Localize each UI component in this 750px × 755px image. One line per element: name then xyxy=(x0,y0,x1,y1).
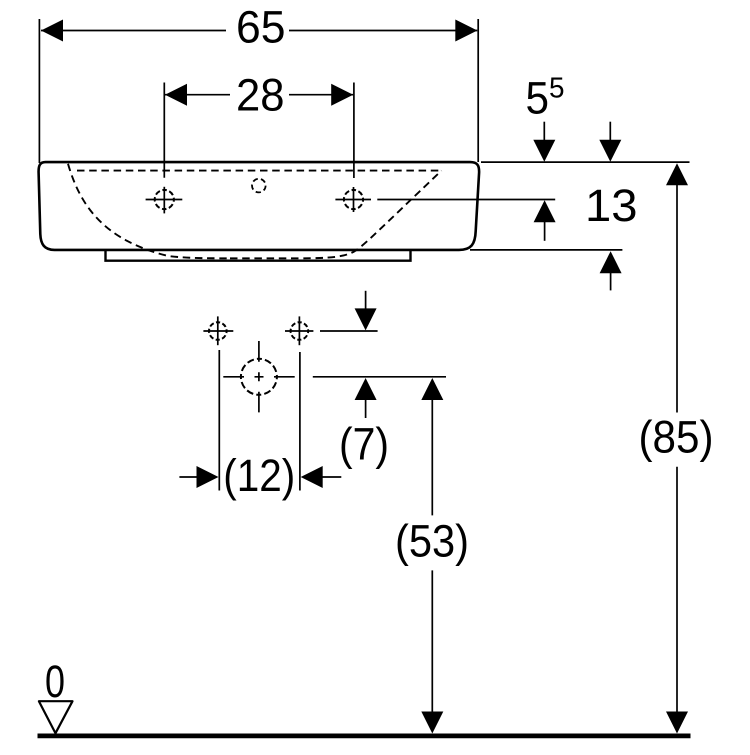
arrowhead left 65 xyxy=(41,20,63,42)
datum triangle xyxy=(39,701,73,733)
label 5^5 xyxy=(526,72,565,123)
mounting hole centerline extension right xyxy=(320,330,378,332)
arrow up to 13 line xyxy=(534,200,556,241)
svg-text:13: 13 xyxy=(585,180,638,231)
svg-text:(12): (12) xyxy=(223,450,295,501)
svg-text:0: 0 xyxy=(45,656,65,707)
svg-text:5: 5 xyxy=(549,73,565,105)
faucet hole right xyxy=(335,187,371,212)
svg-text:(85): (85) xyxy=(639,412,714,463)
arrow down 5.5 left xyxy=(533,122,555,162)
overflow small dashed circle xyxy=(252,179,266,193)
extension line left of 12 dim xyxy=(218,350,220,491)
arrowhead down 53 xyxy=(421,712,443,734)
washbasin bottom lip xyxy=(106,251,411,261)
extension line left of 65 dim xyxy=(38,19,40,163)
svg-text:65: 65 xyxy=(236,2,286,53)
basin left slope dashed xyxy=(68,164,230,258)
svg-text:(7): (7) xyxy=(339,419,389,470)
dimension line 53 xyxy=(431,399,433,713)
extension line right of 12 dim xyxy=(299,352,301,491)
arrow left to 12 xyxy=(301,466,342,488)
extension line left of 28 dim xyxy=(163,83,165,178)
svg-text:(53): (53) xyxy=(395,516,469,567)
mounting hole right xyxy=(285,316,313,345)
dimension line 28 xyxy=(165,94,353,96)
dimension line 85 xyxy=(676,185,678,713)
svg-text:5: 5 xyxy=(526,72,550,123)
arrow up to bottom edge line xyxy=(600,251,622,290)
arrowhead right 65 xyxy=(455,20,477,42)
extension line right of 28 dim xyxy=(353,83,355,179)
arrow up 7 xyxy=(355,378,377,418)
washbasin outline xyxy=(39,162,480,250)
arrowhead up 53 xyxy=(421,378,443,400)
extension line right of 65 dim xyxy=(477,19,479,162)
mounting hole left xyxy=(203,316,233,345)
reference line 13 at faucet centers xyxy=(377,199,555,201)
faucet hole left xyxy=(146,187,183,214)
dimension line 65 xyxy=(41,30,477,32)
svg-text:28: 28 xyxy=(236,69,285,120)
reference line bottom edge right xyxy=(470,249,622,251)
arrow down to mounting hole line xyxy=(355,291,377,331)
basin inner rim dashed top xyxy=(77,170,441,172)
arrowhead down 85 xyxy=(666,712,688,734)
arrow down 5.5 right xyxy=(599,122,621,162)
arrowhead left 28 xyxy=(165,84,187,106)
arrowhead up 85 xyxy=(666,163,688,185)
arrowhead right 28 xyxy=(331,84,353,106)
reference line at drain center xyxy=(313,376,446,378)
arrow right to 12 xyxy=(179,466,218,488)
reference line top edge right xyxy=(481,161,690,163)
ground line xyxy=(38,734,691,739)
drain dashed circle xyxy=(223,341,294,412)
basin bottom and right slope dashed xyxy=(230,171,442,259)
